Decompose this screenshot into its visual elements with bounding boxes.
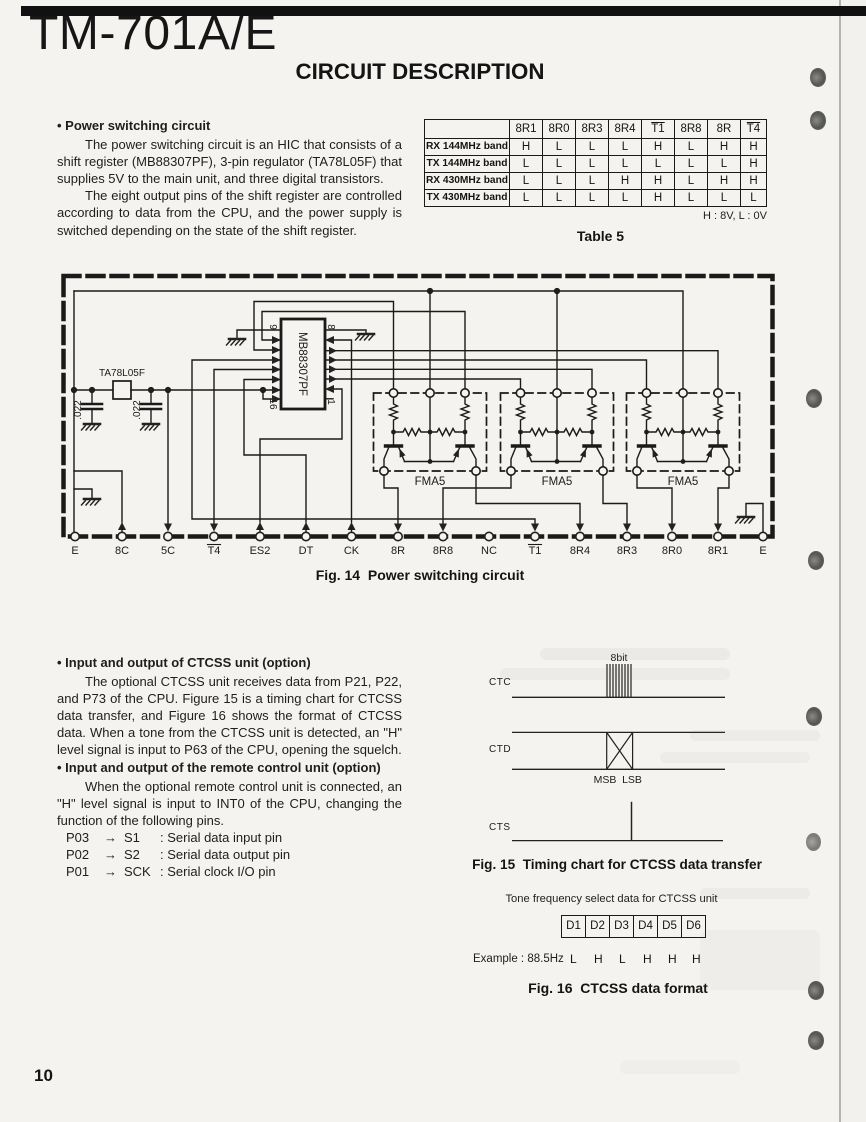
ground under C2 bbox=[141, 424, 160, 430]
svg-text:FMA5: FMA5 bbox=[542, 476, 573, 488]
wire: IC output to block2 right base bbox=[325, 369, 592, 389]
svg-text:FMA5: FMA5 bbox=[668, 476, 699, 488]
svg-text:8R3: 8R3 bbox=[617, 545, 637, 557]
wire: left vertical bus (E line) bbox=[73, 291, 75, 532]
wire: right E terminal ground stub bbox=[746, 504, 763, 533]
terminal 8R0 bbox=[668, 532, 676, 540]
wire: pin9 to ground bbox=[237, 330, 281, 339]
terminal 8R bbox=[394, 532, 402, 540]
ground under C1 bbox=[82, 424, 101, 430]
wire: 5C output drop bbox=[167, 390, 169, 523]
ground on E bus bbox=[82, 499, 101, 505]
terminal E right bbox=[759, 532, 767, 540]
wire: IC output to block2 left base bbox=[325, 379, 521, 389]
Fig.15 caption bbox=[452, 857, 782, 872]
svg-text:5C: 5C bbox=[161, 545, 175, 557]
Fig16 D1-D6 box row bbox=[561, 915, 706, 938]
wire: pin8 to ground bbox=[325, 330, 366, 334]
Fig16: tone frequency data bbox=[504, 893, 719, 905]
terminal 8C bbox=[118, 532, 126, 540]
CTS detect pulse bbox=[631, 802, 633, 841]
wire: pin1 stub bbox=[325, 398, 333, 400]
svg-text:MB88307PF: MB88307PF bbox=[296, 332, 308, 396]
CTD data crossing bbox=[607, 732, 633, 769]
wire: IC output to block3 right base bbox=[325, 351, 718, 389]
Fig.16 caption bbox=[518, 980, 718, 996]
wire: IC pin to block1 right base (over the top) bbox=[262, 312, 465, 390]
wire: block1 center drop bbox=[429, 291, 431, 389]
svg-text:DT: DT bbox=[299, 545, 314, 557]
wire: 8C branch from bus bbox=[74, 471, 122, 522]
terminal 8R8 bbox=[439, 532, 447, 540]
wire: T1 input to IC bbox=[192, 360, 535, 523]
svg-text:CTS: CTS bbox=[489, 822, 511, 833]
CTC clock burst bbox=[607, 664, 631, 697]
Fig16 example line bbox=[473, 953, 564, 965]
wire: 5V rail regulator to IC pin bbox=[131, 389, 279, 391]
svg-text:8R0: 8R0 bbox=[662, 545, 682, 557]
transistor array Q3 FMA5 bbox=[627, 389, 740, 475]
wire: top 8V rail to block3 center bbox=[74, 291, 683, 389]
left text block: Power switching circuit bbox=[57, 117, 402, 239]
terminal T1bar bbox=[531, 532, 539, 540]
terminal E left bbox=[71, 532, 79, 540]
terminal 8R4 bbox=[576, 532, 584, 540]
terminal T4bar bbox=[210, 532, 218, 540]
wire: Q1 right collector to 8R4 bbox=[476, 475, 580, 523]
right page-edge artifacts bbox=[839, 0, 841, 1122]
svg-text:8C: 8C bbox=[115, 545, 129, 557]
node: rail to block1 center bbox=[428, 289, 433, 294]
wire: Q2 left collector to 8R8 bbox=[443, 475, 511, 523]
svg-text:E: E bbox=[759, 545, 766, 557]
svg-text:T4: T4 bbox=[208, 545, 221, 557]
transistor array Q1 FMA5 bbox=[374, 389, 487, 475]
top black bar bbox=[21, 6, 866, 16]
svg-text:8R: 8R bbox=[391, 545, 405, 557]
capacitor C2 .022 bbox=[150, 390, 152, 403]
svg-text:T1: T1 bbox=[529, 545, 542, 557]
terminal ES2 bbox=[256, 532, 264, 540]
node: rail to block2 center bbox=[555, 289, 560, 294]
wire: IC pin to block1 left base (over the top) bbox=[254, 302, 394, 390]
wire: ES2 input to IC bbox=[260, 389, 342, 522]
ground at pin8 bbox=[356, 334, 375, 340]
wire: 5V rail from bus to regulator bbox=[74, 389, 113, 391]
wire: Q1 left collector to 8R bbox=[384, 475, 398, 523]
ground at right E bbox=[736, 517, 755, 523]
IC U1 MB88307PF bbox=[281, 319, 325, 409]
svg-text:MSB: MSB bbox=[594, 774, 617, 786]
wire: pin16 branch bbox=[263, 390, 279, 399]
terminal CK bbox=[347, 532, 355, 540]
dashed enclosure border bbox=[64, 276, 773, 537]
svg-text:ES2: ES2 bbox=[250, 545, 271, 557]
Fig.14 caption bbox=[220, 567, 620, 583]
terminal 8R3 bbox=[623, 532, 631, 540]
wire: CK input to IC bbox=[333, 340, 352, 522]
title TM-701A/E bbox=[29, 10, 277, 58]
regulator U2 TA78L05F bbox=[113, 381, 131, 399]
svg-text:TA78L05F: TA78L05F bbox=[99, 368, 145, 379]
svg-text:1: 1 bbox=[325, 399, 336, 405]
terminal 8R1 bbox=[714, 532, 722, 540]
arrow into IC pin (5V rail) bbox=[272, 386, 281, 394]
svg-text:CTD: CTD bbox=[489, 744, 511, 755]
table 5 bbox=[424, 119, 767, 244]
svg-text:.022: .022 bbox=[73, 400, 84, 420]
Fig.15 timing chart bbox=[470, 640, 770, 855]
wire: Q3 right collector to 8R1 bbox=[718, 475, 729, 523]
CTD upper line bbox=[512, 731, 725, 733]
faint print-through artifacts bbox=[540, 648, 730, 660]
svg-text:CK: CK bbox=[344, 545, 360, 557]
svg-text:FMA5: FMA5 bbox=[415, 476, 446, 488]
CTD lower line bbox=[512, 768, 725, 770]
capacitor C1 .022 bbox=[91, 390, 93, 403]
wire: DT input to IC bbox=[244, 380, 306, 523]
svg-text:8R4: 8R4 bbox=[570, 545, 590, 557]
node: bus/5V rail junction bbox=[72, 388, 77, 393]
svg-text:E: E bbox=[71, 545, 78, 557]
svg-text:.022: .022 bbox=[132, 400, 143, 420]
wire: block2 center drop bbox=[556, 291, 558, 389]
wire: E bus ground stub bbox=[74, 489, 92, 499]
wire: Q3 left collector to 8R0 bbox=[637, 475, 672, 523]
wire: T4 output from IC bbox=[214, 370, 279, 524]
CTS baseline bbox=[512, 840, 723, 842]
terminal 5C bbox=[164, 532, 172, 540]
ground at pin9 bbox=[227, 339, 246, 345]
svg-text:8R1: 8R1 bbox=[708, 545, 728, 557]
svg-text:8R8: 8R8 bbox=[433, 545, 453, 557]
page number bbox=[34, 1066, 53, 1086]
lower left text block bbox=[57, 654, 402, 880]
terminal NC bbox=[485, 532, 493, 540]
heading CIRCUIT DESCRIPTION bbox=[0, 59, 840, 85]
Fig.14 schematic bbox=[55, 265, 790, 565]
transistor array Q2 FMA5 bbox=[501, 389, 614, 475]
svg-text:NC: NC bbox=[481, 545, 497, 557]
wire: IC output to block3 left base bbox=[325, 360, 647, 389]
wire: Q2 right collector to 8R3 bbox=[603, 475, 627, 523]
terminal DT bbox=[302, 532, 310, 540]
svg-text:LSB: LSB bbox=[622, 774, 642, 786]
CTC baseline bbox=[512, 696, 725, 698]
